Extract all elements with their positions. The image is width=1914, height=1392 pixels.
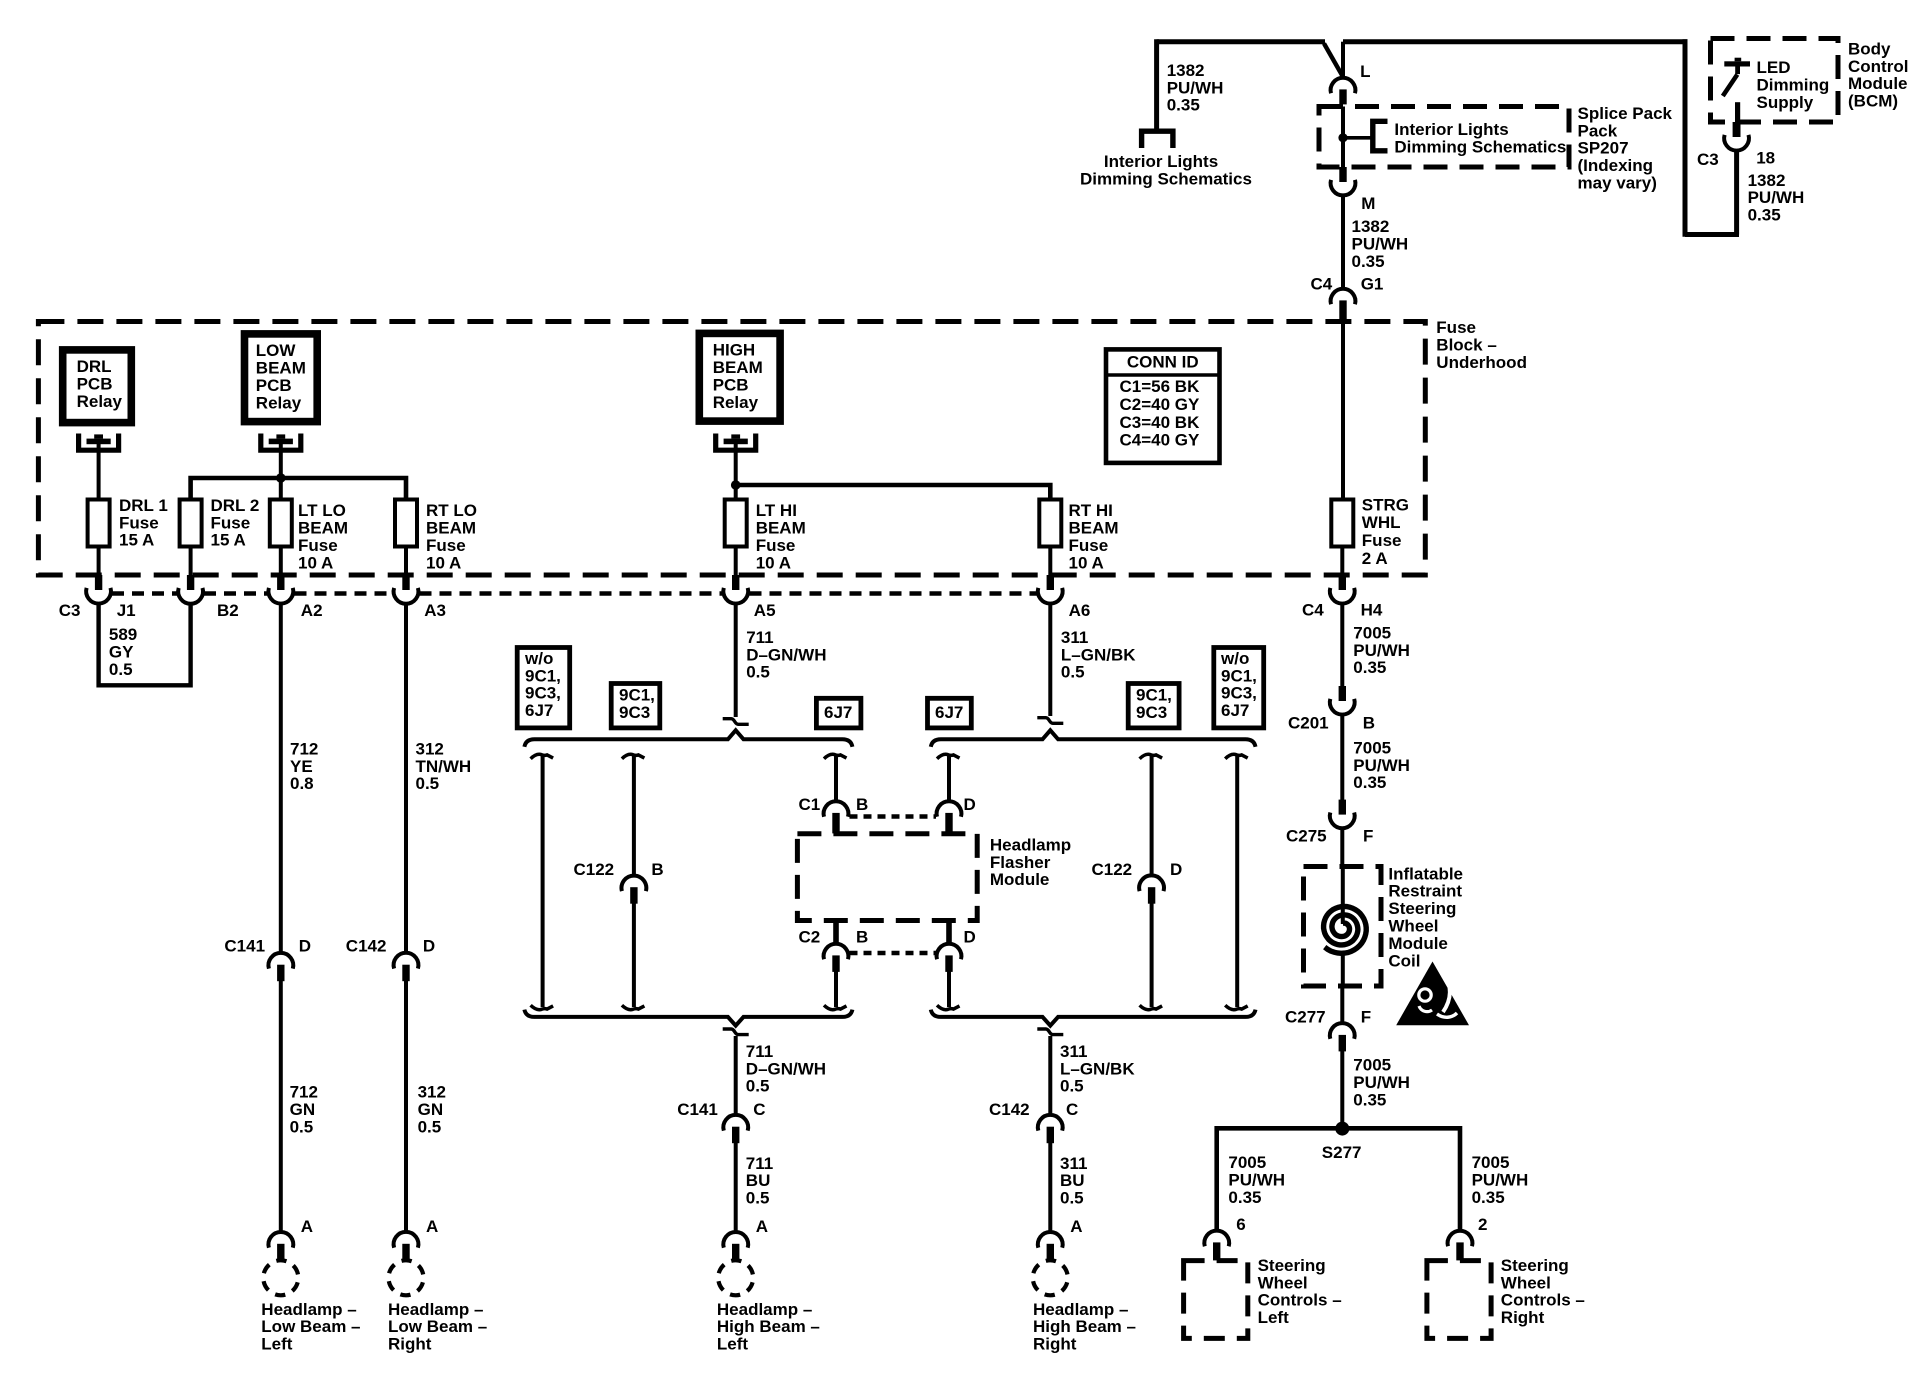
svg-text:BEAM: BEAM: [1069, 519, 1119, 538]
wire: top horizontal right segment to BCM loop: [1343, 39, 1688, 44]
svg-text:0.5: 0.5: [746, 663, 770, 682]
svg-text:Control: Control: [1848, 57, 1908, 76]
connector H4 (stub + cup): [1339, 575, 1346, 590]
svg-text:Splice Pack: Splice Pack: [1578, 104, 1673, 123]
svg-text:0.5: 0.5: [418, 1118, 442, 1137]
connector A to headlamp Low Beam – Right: [394, 1232, 419, 1248]
connector face dotted line segment 1: [112, 591, 177, 596]
right option group bottom brace: [931, 1010, 1256, 1026]
SIR coil spiral: [1324, 907, 1367, 954]
svg-text:2 A: 2 A: [1362, 549, 1388, 568]
HIGH BEAM PCB Relay box: [699, 333, 780, 421]
svg-text:Controls –: Controls –: [1501, 1291, 1585, 1310]
svg-text:712: 712: [290, 739, 318, 758]
svg-text:M: M: [1361, 194, 1375, 213]
LED Dimming Supply switch symbol: [1724, 61, 1750, 66]
svg-text:Supply: Supply: [1757, 93, 1814, 112]
connector A to headlamp Low Beam – Left: [268, 1232, 293, 1248]
svg-text:Controls –: Controls –: [1258, 1291, 1342, 1310]
svg-text:9C1,: 9C1,: [619, 685, 655, 704]
svg-text:10 A: 10 A: [426, 553, 461, 572]
svg-text:1382: 1382: [1167, 61, 1205, 80]
wire: HIGH BEAM relay down to junction: [734, 444, 738, 500]
svg-text:PCB: PCB: [713, 375, 749, 394]
svg-text:15 A: 15 A: [211, 531, 246, 550]
connector A6 (stub + cup): [1047, 575, 1054, 590]
svg-text:LT LO: LT LO: [298, 501, 346, 520]
svg-text:9C1,: 9C1,: [525, 666, 561, 685]
svg-text:Fuse: Fuse: [211, 513, 251, 532]
wire: STRG WHL fuse feed: [1341, 320, 1345, 500]
svg-text:0.35: 0.35: [1748, 206, 1781, 225]
wire into coil: [1341, 867, 1345, 925]
svg-text:711: 711: [746, 628, 773, 647]
option box: w/o 9C1, 9C3, 6J7 (left): [517, 648, 570, 728]
svg-text:F: F: [1361, 1007, 1371, 1026]
wire: LT LO fuse output to bottom edge: [279, 547, 283, 576]
svg-text:0.5: 0.5: [1060, 1189, 1084, 1208]
connector G1/C4 into fuse block: [1331, 289, 1356, 305]
svg-text:0.35: 0.35: [1472, 1188, 1505, 1207]
svg-text:LT HI: LT HI: [756, 501, 797, 520]
splice pack SP207 dashed box: [1319, 107, 1569, 168]
svg-text:7005: 7005: [1353, 1056, 1391, 1075]
svg-text:0.35: 0.35: [1353, 773, 1386, 792]
svg-text:Headlamp: Headlamp: [990, 835, 1071, 854]
svg-text:Fuse: Fuse: [1436, 318, 1476, 337]
svg-text:C1: C1: [799, 795, 821, 814]
connector A2 (stub + cup): [277, 575, 284, 590]
svg-text:C122: C122: [1092, 860, 1133, 879]
svg-text:311: 311: [1061, 628, 1088, 647]
svg-text:6: 6: [1236, 1215, 1245, 1234]
svg-text:6J7: 6J7: [525, 701, 553, 720]
svg-text:DRL 2: DRL 2: [211, 496, 260, 515]
wire: vertical drop to Interior Lights Dimming stub: [1154, 39, 1159, 129]
svg-text:Block –: Block –: [1436, 336, 1496, 355]
svg-text:Left: Left: [261, 1335, 293, 1354]
svg-text:C4=40 GY: C4=40 GY: [1120, 431, 1201, 450]
svg-text:Wheel: Wheel: [1258, 1273, 1308, 1292]
connector pin 2 into steering wheel controls right: [1448, 1231, 1473, 1247]
option box: w/o 9C1, 9C3, 6J7 (right): [1214, 648, 1264, 728]
svg-text:10 A: 10 A: [298, 553, 333, 572]
svg-text:D–GN/WH: D–GN/WH: [746, 1059, 826, 1078]
svg-text:A: A: [756, 1217, 768, 1236]
svg-text:0.5: 0.5: [416, 774, 440, 793]
svg-text:Headlamp –: Headlamp –: [717, 1300, 812, 1319]
svg-text:9C3,: 9C3,: [525, 684, 561, 703]
svg-text:SP207: SP207: [1578, 139, 1629, 158]
wire: DRL relay to DRL1 fuse: [97, 444, 101, 500]
svg-text:PU/WH: PU/WH: [1167, 78, 1224, 97]
wire: 712 GN to headlamp low left: [279, 981, 283, 1233]
relay terminal LOW BEAM: [261, 434, 301, 451]
splice junction dot SP207: [1338, 133, 1347, 142]
svg-text:PU/WH: PU/WH: [1353, 641, 1410, 660]
svg-text:PU/WH: PU/WH: [1472, 1170, 1529, 1189]
connector face dotted line segment 2: [204, 591, 268, 596]
svg-text:PU/WH: PU/WH: [1353, 1073, 1410, 1092]
svg-text:D: D: [423, 936, 435, 955]
connector A3 (stub + cup): [402, 575, 409, 590]
wire: A6 output 311 L-GN/BK: [1048, 603, 1052, 716]
Headlamp Flasher Module dashed box: [797, 834, 977, 921]
svg-text:0.35: 0.35: [1353, 658, 1386, 677]
svg-text:(BCM): (BCM): [1848, 92, 1898, 111]
svg-text:BEAM: BEAM: [756, 519, 806, 538]
left option group bottom brace: [524, 1010, 852, 1026]
wire: DRL 1 fuse output to bottom edge: [97, 547, 101, 576]
half-connector bracket: to Interior Lights Dimming Schematics: [1142, 131, 1173, 148]
svg-text:High Beam –: High Beam –: [1033, 1317, 1136, 1336]
svg-text:Fuse: Fuse: [426, 536, 466, 555]
svg-text:7005: 7005: [1228, 1153, 1266, 1172]
svg-text:6J7: 6J7: [1221, 701, 1249, 720]
connector C142 pin C: [1038, 1115, 1063, 1131]
svg-text:Inflatable: Inflatable: [1388, 864, 1463, 883]
svg-text:589: 589: [109, 625, 137, 644]
svg-text:6J7: 6J7: [935, 703, 963, 722]
fuse LT HI BEAM 10A: [725, 500, 747, 547]
wire: 311 BU to headlamp high right: [1048, 1143, 1052, 1233]
wire: RT LO fuse output to bottom edge: [404, 547, 408, 576]
svg-text:D: D: [1170, 860, 1182, 879]
break squiggle above left brace: [723, 719, 749, 725]
svg-text:C122: C122: [574, 860, 615, 879]
svg-text:9C3: 9C3: [1136, 703, 1167, 722]
svg-text:6J7: 6J7: [824, 703, 852, 722]
svg-text:High Beam –: High Beam –: [717, 1317, 820, 1336]
svg-text:L–GN/BK: L–GN/BK: [1061, 645, 1136, 664]
svg-text:BU: BU: [746, 1171, 771, 1190]
svg-text:Relay: Relay: [713, 393, 759, 412]
wire: loop bottom horizontal: [1685, 232, 1739, 237]
connector C2 pin B out of module: [833, 921, 839, 946]
wire: 1382 PU/WH feed, top horizontal left segment: [1157, 39, 1325, 44]
svg-text:A: A: [1070, 1217, 1082, 1236]
svg-text:F: F: [1363, 826, 1373, 845]
fuse DRL 2 15A: [180, 500, 202, 547]
svg-text:C275: C275: [1286, 826, 1327, 845]
svg-text:B: B: [1363, 713, 1375, 732]
fuse RT LO BEAM 10A: [395, 500, 417, 547]
svg-text:YE: YE: [290, 757, 313, 776]
option wire w/o (left): [531, 754, 554, 758]
wire: C2 to bottom brace: [834, 971, 838, 1007]
svg-text:0.8: 0.8: [290, 774, 314, 793]
Body Control Module dashed box: [1711, 39, 1839, 123]
svg-text:Left: Left: [1258, 1308, 1290, 1327]
svg-text:2: 2: [1478, 1215, 1487, 1234]
svg-text:Low Beam –: Low Beam –: [261, 1317, 360, 1336]
svg-text:Fuse: Fuse: [1069, 536, 1109, 555]
svg-text:10 A: 10 A: [1069, 553, 1104, 572]
wire: BCM pin 18 loop down: [1734, 150, 1739, 235]
Steering Wheel Controls Left dashed box: [1184, 1261, 1248, 1339]
connector C142 pin D: [394, 953, 419, 969]
svg-text:Restraint: Restraint: [1388, 882, 1462, 901]
svg-text:Fuse: Fuse: [1362, 531, 1402, 550]
option box: 6J7 (right): [928, 698, 972, 728]
connector C141 pin C: [723, 1115, 748, 1131]
svg-text:GY: GY: [109, 643, 134, 662]
svg-text:711: 711: [746, 1154, 773, 1173]
svg-text:0.35: 0.35: [1352, 252, 1385, 271]
connector C1 pin B into module: [824, 801, 849, 817]
svg-text:J1: J1: [117, 601, 136, 620]
wire: below STRG WHL fuse: [1340, 547, 1344, 576]
connector C275 pin F: [1339, 800, 1346, 815]
headlamp component circle Low Beam – Right: [389, 1260, 424, 1295]
CONN ID table box: [1106, 349, 1220, 463]
svg-text:B: B: [856, 795, 868, 814]
connector C277 pin F: [1330, 1023, 1355, 1039]
svg-text:PU/WH: PU/WH: [1352, 235, 1409, 254]
option wire via flasher module (left): [824, 754, 847, 758]
wire: RT HI fuse output to bottom edge: [1048, 547, 1052, 576]
option wire w/o (right): [1225, 754, 1248, 758]
wire: A5 output 711 D-GN/WH: [734, 603, 738, 717]
wire: D bottom to brace: [947, 971, 951, 1007]
svg-text:STRG: STRG: [1362, 495, 1409, 514]
headlamp component circle High Beam – Left: [718, 1260, 753, 1295]
svg-text:A: A: [301, 1217, 313, 1236]
wire: A2 output 712 YE: [279, 603, 283, 954]
svg-text:w/o: w/o: [524, 649, 553, 668]
connector B2 (stub + cup): [187, 575, 194, 590]
connector C2 association dotted line: [850, 951, 937, 956]
svg-text:9C1,: 9C1,: [1136, 685, 1172, 704]
svg-text:Fuse: Fuse: [756, 536, 796, 555]
DRL PCB Relay box: [63, 350, 132, 423]
svg-text:9C3: 9C3: [619, 703, 650, 722]
svg-text:Interior Lights: Interior Lights: [1104, 152, 1218, 171]
connector L (cap + stub into splice pack): [1331, 78, 1356, 94]
fuse DRL 1 15A: [88, 500, 110, 547]
connector C141 pin D: [268, 953, 293, 969]
svg-text:LOW: LOW: [256, 341, 297, 360]
svg-text:C142: C142: [989, 1100, 1030, 1119]
svg-text:PCB: PCB: [77, 374, 113, 393]
svg-text:Steering: Steering: [1258, 1256, 1326, 1275]
wire: C277 to splice S277: [1340, 1051, 1344, 1128]
Inflatable Restraint Steering Wheel Module Coil dashed box: [1304, 867, 1382, 987]
svg-text:Pack: Pack: [1578, 121, 1618, 140]
svg-text:Relay: Relay: [77, 392, 123, 411]
svg-text:Coil: Coil: [1388, 951, 1420, 970]
svg-text:(Indexing: (Indexing: [1578, 156, 1654, 175]
connector face dotted line segment 3: [295, 591, 393, 596]
connector C122 pin B: [622, 876, 647, 892]
svg-text:C4: C4: [1302, 600, 1324, 619]
svg-text:RT LO: RT LO: [426, 501, 477, 520]
svg-text:B: B: [856, 927, 868, 946]
svg-text:A3: A3: [424, 601, 446, 620]
svg-text:Dimming Schematics: Dimming Schematics: [1394, 137, 1566, 156]
option wire via flasher module (right): [937, 754, 960, 758]
svg-text:BEAM: BEAM: [256, 359, 306, 378]
svg-text:B2: B2: [217, 601, 239, 620]
svg-text:C2=40 GY: C2=40 GY: [1120, 395, 1201, 414]
svg-text:Module: Module: [1388, 934, 1448, 953]
svg-text:9C3,: 9C3,: [1221, 684, 1257, 703]
svg-text:Right: Right: [1501, 1308, 1545, 1327]
connector J1 (stub + cup): [95, 575, 102, 590]
svg-text:C141: C141: [224, 936, 265, 955]
svg-text:Flasher: Flasher: [990, 853, 1051, 872]
svg-text:0.5: 0.5: [1060, 1077, 1084, 1096]
svg-text:DRL 1: DRL 1: [119, 496, 168, 515]
svg-text:C3: C3: [1697, 150, 1719, 169]
svg-text:15 A: 15 A: [119, 531, 154, 550]
svg-text:PU/WH: PU/WH: [1228, 1170, 1285, 1189]
svg-text:D: D: [299, 936, 311, 955]
svg-text:C2: C2: [799, 927, 821, 946]
svg-text:0.35: 0.35: [1167, 96, 1200, 115]
wire: C201 to C275: [1340, 714, 1344, 801]
svg-text:RT HI: RT HI: [1069, 501, 1113, 520]
wire: 312 GN to headlamp low right: [404, 981, 408, 1233]
wire: diagonal splice into connector L: [1324, 44, 1343, 77]
svg-text:WHL: WHL: [1362, 513, 1401, 532]
connector A to headlamp High Beam – Left: [723, 1232, 748, 1248]
wire: 711 D-GN/WH to C141: [734, 1036, 738, 1116]
LOW BEAM PCB Relay box: [245, 334, 318, 422]
svg-text:L: L: [1360, 62, 1370, 81]
svg-text:PCB: PCB: [256, 376, 292, 395]
svg-text:BEAM: BEAM: [298, 519, 348, 538]
bracket: Interior Lights Dimming Schematics reference: [1373, 121, 1388, 151]
svg-text:Body: Body: [1848, 39, 1891, 58]
headlamp component circle High Beam – Right: [1033, 1260, 1068, 1295]
connector D (top) into module: [937, 801, 962, 817]
svg-text:Right: Right: [1033, 1335, 1077, 1354]
svg-text:712: 712: [290, 1083, 318, 1102]
wire out of coil: [1341, 952, 1345, 987]
wire: 711 BU to headlamp high left: [734, 1143, 738, 1233]
svg-text:A5: A5: [754, 601, 776, 620]
svg-text:D: D: [964, 795, 976, 814]
svg-text:CONN ID: CONN ID: [1127, 352, 1199, 371]
svg-text:GN: GN: [290, 1100, 316, 1119]
splice S277 bus: [1217, 1128, 1460, 1231]
svg-text:C1=56 BK: C1=56 BK: [1120, 377, 1201, 396]
svg-text:Module: Module: [990, 870, 1050, 889]
svg-text:0.5: 0.5: [109, 660, 133, 679]
svg-text:0.5: 0.5: [746, 1189, 770, 1208]
svg-text:BEAM: BEAM: [713, 358, 763, 377]
svg-text:1382: 1382: [1748, 171, 1786, 190]
wire: 311 L-GN/BK to C142: [1048, 1036, 1052, 1116]
splice dot S277: [1335, 1122, 1349, 1136]
wire: LOW BEAM relay down to junction: [279, 444, 283, 500]
option wire via C122 B: [622, 754, 645, 758]
svg-text:G1: G1: [1361, 274, 1384, 293]
right option group top brace: [931, 730, 1256, 747]
svg-text:1382: 1382: [1352, 217, 1390, 236]
svg-text:BU: BU: [1060, 1171, 1085, 1190]
wire: 589 GY jumper J1 to B2: [99, 603, 191, 685]
svg-text:A: A: [426, 1217, 438, 1236]
svg-text:B: B: [651, 860, 663, 879]
wire: A3 output 312 TN/WH: [404, 603, 408, 954]
relay terminal DRL: [79, 434, 119, 451]
connector C122 pin D: [1139, 875, 1164, 891]
svg-text:BEAM: BEAM: [426, 519, 476, 538]
option box: 9C1, 9C3 (left): [611, 684, 660, 728]
svg-text:A2: A2: [301, 601, 323, 620]
svg-text:A6: A6: [1069, 601, 1091, 620]
Fuse Block - Underhood dashed box: [38, 322, 1425, 576]
svg-text:TN/WH: TN/WH: [416, 757, 472, 776]
break squiggle below left brace: [723, 1029, 749, 1035]
break squiggle above right brace: [1037, 718, 1063, 724]
svg-text:Low Beam –: Low Beam –: [388, 1317, 487, 1336]
svg-text:C: C: [753, 1100, 765, 1119]
svg-text:10 A: 10 A: [756, 553, 791, 572]
svg-text:Wheel: Wheel: [1501, 1273, 1551, 1292]
SIR warning triangle: [1396, 962, 1469, 1026]
svg-text:C3: C3: [59, 601, 81, 620]
svg-text:LED: LED: [1757, 58, 1791, 77]
svg-text:312: 312: [418, 1083, 446, 1102]
wire: link to schematic bracket: [1343, 136, 1372, 140]
option box: 6J7 (left): [816, 698, 861, 728]
break squiggle below right brace: [1037, 1029, 1063, 1035]
svg-text:C141: C141: [677, 1100, 718, 1119]
svg-text:Headlamp –: Headlamp –: [388, 1300, 483, 1319]
svg-text:Wheel: Wheel: [1388, 917, 1438, 936]
svg-text:L–GN/BK: L–GN/BK: [1060, 1059, 1135, 1078]
svg-text:may vary): may vary): [1578, 174, 1657, 193]
wire: loop up to top rail: [1683, 39, 1688, 237]
option box: 9C1, 9C3 (right): [1128, 684, 1179, 728]
connector face dotted line segment 5: [750, 591, 1038, 596]
wire: DRL 2 fuse output to bottom edge: [189, 547, 193, 576]
svg-text:311: 311: [1060, 1042, 1087, 1061]
svg-text:7005: 7005: [1353, 623, 1391, 642]
svg-text:GN: GN: [418, 1100, 444, 1119]
svg-text:w/o: w/o: [1220, 649, 1249, 668]
connector C3 pin 18 (stub + cup): [1733, 122, 1741, 137]
fuse LT LO BEAM 10A: [270, 500, 292, 547]
connector C201 pin B: [1339, 686, 1346, 701]
svg-text:Steering: Steering: [1388, 899, 1456, 918]
svg-text:311: 311: [1060, 1154, 1087, 1173]
wire: SIR coil to C277: [1340, 986, 1344, 1025]
svg-text:C3=40 BK: C3=40 BK: [1120, 413, 1201, 432]
svg-text:S277: S277: [1322, 1143, 1362, 1162]
svg-text:Headlamp –: Headlamp –: [1033, 1300, 1128, 1319]
svg-text:Module: Module: [1848, 74, 1908, 93]
svg-text:C4: C4: [1311, 274, 1333, 293]
svg-text:Steering: Steering: [1501, 1256, 1569, 1275]
wire: through splice pack: [1341, 107, 1345, 168]
svg-text:0.5: 0.5: [746, 1077, 770, 1096]
svg-text:D–GN/WH: D–GN/WH: [746, 645, 826, 664]
svg-text:Fuse: Fuse: [298, 536, 338, 555]
connector D (bottom) out of module: [946, 921, 952, 946]
svg-text:HIGH: HIGH: [713, 341, 756, 360]
Steering Wheel Controls Right dashed box: [1427, 1261, 1491, 1339]
svg-text:Left: Left: [717, 1335, 749, 1354]
option wire via C122 D: [1140, 754, 1163, 758]
svg-text:PU/WH: PU/WH: [1748, 188, 1805, 207]
svg-text:C: C: [1066, 1100, 1078, 1119]
svg-text:Interior Lights: Interior Lights: [1394, 120, 1508, 139]
svg-text:Fuse: Fuse: [119, 513, 159, 532]
